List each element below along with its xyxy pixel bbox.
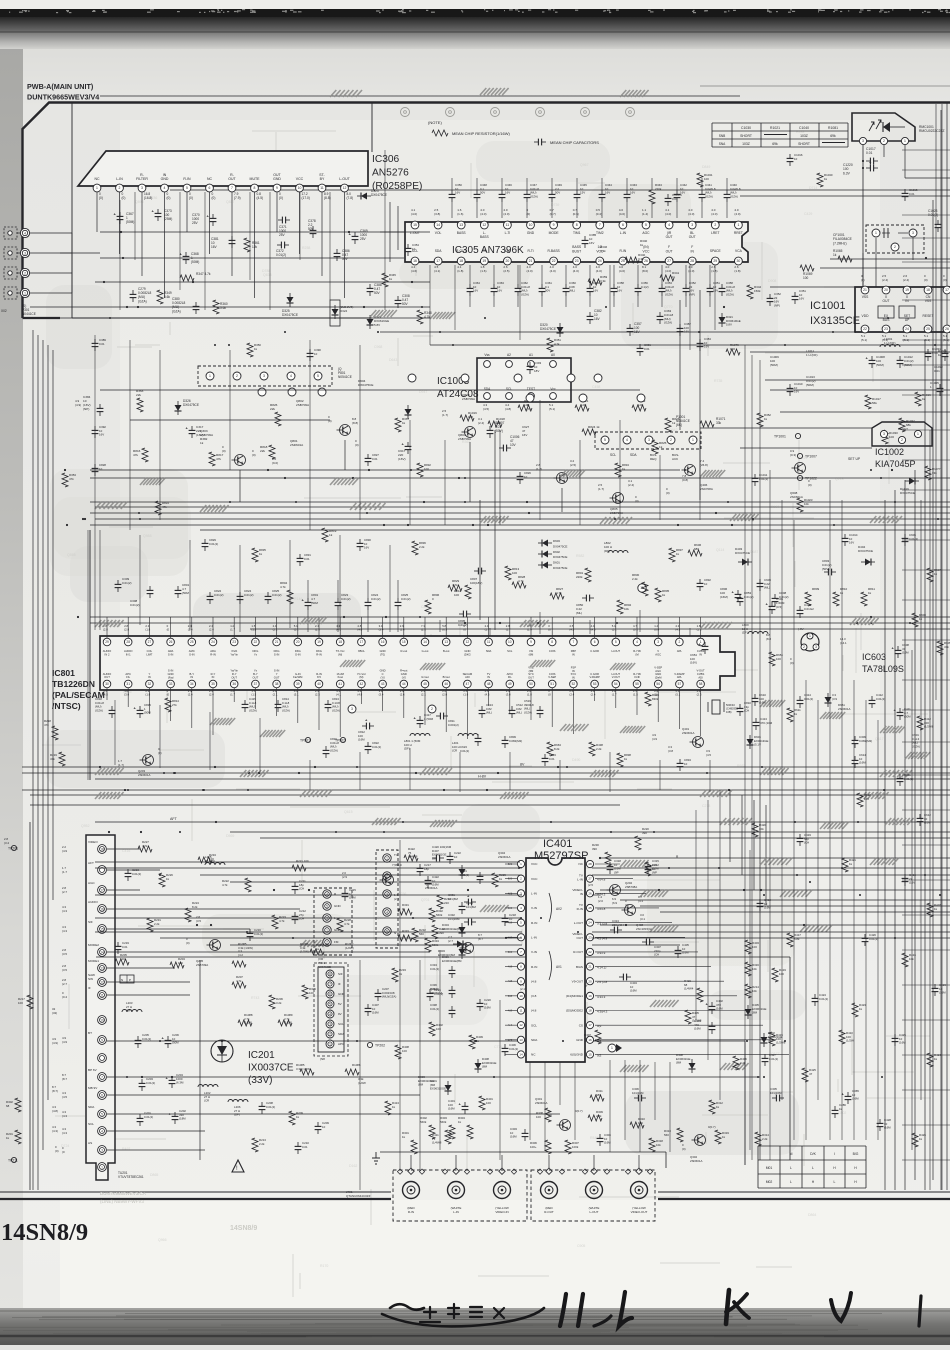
- IC801 bottom pin 46: [442, 680, 450, 688]
- svg-text:48: 48: [487, 682, 491, 686]
- svg-text:1: 1: [209, 374, 211, 378]
- TU201 pin 13 MODE1: [98, 964, 107, 973]
- svg-text:SIF: SIF: [88, 920, 93, 924]
- IC401 pin 19: [586, 992, 593, 999]
- IC801 bottom pin 53: [591, 680, 599, 688]
- svg-text:1: 1: [917, 432, 919, 436]
- resistor R820: [518, 405, 532, 411]
- inductor L401: [458, 734, 478, 737]
- svg-text:Vcc: Vcc: [550, 387, 556, 391]
- svg-text:16: 16: [588, 1038, 592, 1042]
- capacitor C355 C356 R342 cluster right: [721, 284, 723, 288]
- IC801 top pin 17: [358, 638, 366, 646]
- IC306 pin 2: [116, 184, 124, 192]
- svg-text:Vss: Vss: [484, 353, 490, 357]
- capacitor C828: [94, 464, 96, 468]
- capacitor C206: [167, 1036, 169, 1040]
- capacitor C350: [451, 190, 453, 194]
- svg-text:C968: C968: [374, 345, 382, 349]
- svg-text:L: L: [834, 1180, 836, 1184]
- capacitor C608: [897, 646, 899, 650]
- svg-text:R743: R743: [251, 996, 259, 1000]
- svg-text:46: 46: [444, 682, 448, 686]
- capacitor C813: [327, 700, 329, 704]
- capacitor C204: [171, 1076, 173, 1080]
- capacitor C318: [609, 862, 611, 866]
- svg-text:28: 28: [690, 259, 694, 263]
- svg-text:12: 12: [466, 640, 470, 644]
- svg-text:41: 41: [338, 682, 342, 686]
- IC1001 top pin 18: [924, 286, 932, 294]
- capacitor C831: [299, 554, 301, 558]
- svg-text:20: 20: [506, 259, 510, 263]
- capacitor C385: [584, 236, 586, 240]
- capacitor C815: [139, 706, 141, 710]
- svg-text:2: 2: [679, 640, 681, 644]
- capacitor C1008: [871, 356, 873, 360]
- capacitor C216: [249, 929, 251, 933]
- capacitor C1016: [789, 154, 791, 158]
- svg-text:57: 57: [678, 682, 682, 686]
- svg-text:NC: NC: [94, 177, 100, 181]
- svg-text:R-IN: R-IN: [620, 249, 627, 253]
- svg-text:24: 24: [211, 640, 215, 644]
- svg-text:11: 11: [519, 1009, 522, 1013]
- svg-text:SIF: SIF: [338, 972, 343, 976]
- svg-text:3: 3: [386, 892, 388, 896]
- IC401 pin 11: [517, 1007, 524, 1014]
- zener D651: [825, 697, 832, 703]
- capacitor C207: [377, 989, 379, 993]
- svg-text:23: 23: [884, 327, 888, 331]
- capacitor C347: [526, 190, 528, 194]
- capacitor C391: [639, 344, 641, 348]
- svg-text:27: 27: [588, 877, 592, 881]
- IC401 pin 21: [586, 963, 593, 970]
- svg-text:D687: D687: [750, 550, 758, 554]
- IC801 top pin 12: [464, 638, 472, 646]
- connector P203 (IF strip): [318, 967, 344, 1052]
- resistor R422: [404, 855, 418, 861]
- resistor R822: [632, 405, 646, 411]
- IC401 pin 7: [517, 948, 524, 955]
- svg-text:A2: A2: [507, 353, 511, 357]
- wire verticals right side: [769, 470, 771, 1160]
- IC1001 top pin 17: [943, 286, 950, 294]
- resistor R225: [310, 949, 324, 955]
- svg-text:6(S)GND: 6(S)GND: [570, 1053, 583, 1057]
- svg-text:9: 9: [276, 186, 278, 190]
- capacitor C201: [139, 1114, 141, 1118]
- capacitor C358: [613, 284, 615, 288]
- capacitor C513 C512 C519: [481, 706, 483, 710]
- connector pin below: [258, 388, 266, 396]
- IC1001 bottom pin 22: [861, 325, 869, 333]
- wire bus group: AFT lines y788-840: [22, 789, 950, 791]
- P401 pin 4: [323, 890, 331, 898]
- svg-text:(-9V: (-9V: [798, 627, 804, 631]
- resistor R829: [448, 585, 462, 591]
- svg-text:RRET: RRET: [734, 231, 743, 235]
- resistor R361: [244, 238, 250, 252]
- svg-text:3: 3: [815, 645, 817, 649]
- resistor R651: [769, 652, 775, 666]
- IC305 top pin 15: [411, 221, 419, 229]
- capacitor C303: [524, 1129, 526, 1133]
- IC801 top pin 13: [442, 638, 450, 646]
- diode D320: [557, 327, 564, 333]
- svg-text:1: 1: [386, 856, 388, 860]
- wires RMC1001: [862, 145, 864, 287]
- IF connector pin 4: [326, 1010, 334, 1018]
- resistor R801: [585, 568, 591, 582]
- resistor R405: [685, 1010, 691, 1024]
- resistor R314: [755, 1132, 761, 1146]
- IC305 top pin 1: [735, 221, 743, 229]
- resistor R663: [547, 742, 553, 756]
- capacitor C221: [429, 989, 431, 993]
- svg-text:2: 2: [431, 707, 433, 711]
- resistorv R607: [927, 568, 933, 582]
- resistor R1016: [915, 392, 921, 406]
- svg-text:6: 6: [209, 186, 211, 190]
- resistor R207: [232, 982, 246, 988]
- capacitor C212: [294, 912, 296, 916]
- svg-text:MODE2: MODE2: [88, 943, 99, 947]
- capacitor C422: [427, 876, 429, 880]
- svg-text:34: 34: [190, 682, 194, 686]
- svg-text:8: 8: [551, 640, 553, 644]
- resistor R310: [630, 1122, 644, 1128]
- resistor R340: [625, 257, 639, 263]
- svg-text:B/G: B/G: [853, 1152, 859, 1156]
- capacitor C427: [764, 1054, 766, 1058]
- capacitor C307: [642, 941, 646, 943]
- transistor Q408: [625, 905, 636, 916]
- tuning voltage varactor IC201: [211, 1040, 233, 1062]
- resistor R825: [652, 440, 658, 454]
- svg-text:VOL: VOL: [435, 231, 442, 235]
- RCA jack VIDEO-OUT: [631, 1182, 648, 1199]
- IC401 pin 10: [517, 992, 524, 999]
- resistor R824: [582, 429, 596, 435]
- resistor R331: [398, 909, 412, 915]
- svg-text:7: 7: [329, 982, 331, 986]
- diode D408: [689, 1063, 696, 1069]
- transistor Q406: [685, 465, 696, 476]
- capacitor C368: [185, 252, 187, 256]
- svg-text:2: 2: [236, 374, 238, 378]
- IC305 top pin 4: [665, 221, 673, 229]
- IC1003 top pin: [506, 361, 513, 368]
- svg-text:0(3: 0(3: [597, 1053, 602, 1057]
- RCA jack L-OUT: [586, 1182, 603, 1199]
- N|P switch box: [120, 975, 134, 983]
- capacitor C803: [824, 571, 828, 573]
- svg-text:23: 23: [588, 935, 592, 939]
- IF connector pin 1: [326, 1040, 334, 1048]
- inductor L802: [608, 551, 628, 554]
- capacitor C365: [847, 1092, 849, 1096]
- svg-text:4: 4: [329, 1012, 331, 1016]
- TU201 pin 11 IF: [98, 991, 107, 1000]
- P402 pin 4: [383, 908, 391, 916]
- resistorv R209: [289, 1111, 295, 1125]
- capacitor C222: [449, 852, 451, 856]
- svg-text:L: L: [812, 1166, 814, 1170]
- P402 pin 3: [383, 890, 391, 898]
- svg-text:R306100+: R306100+: [530, 1141, 537, 1149]
- resistorv R834: [615, 463, 621, 477]
- svg-text:3: 3: [883, 432, 885, 436]
- IC401 pin 14: [517, 1051, 524, 1058]
- svg-text:APC: APC: [338, 1042, 345, 1046]
- svg-text:TP801: TP801: [300, 739, 310, 743]
- svg-text:MODE: MODE: [549, 231, 560, 235]
- IC801 top pin 4: [633, 638, 641, 646]
- IC1001 top pin 20: [882, 286, 890, 294]
- capacitor C426: [864, 934, 866, 938]
- svg-text:SDA: SDA: [88, 1105, 95, 1109]
- IC401 pin 15: [586, 1051, 593, 1058]
- RMC1001 pin 2: [880, 137, 887, 144]
- TU201 pin 14 MODE2: [98, 948, 107, 957]
- circled 11 node: [638, 584, 646, 592]
- capacitor C348: [476, 190, 478, 194]
- IC801 bottom pin 52: [570, 680, 578, 688]
- svg-text:11: 11: [487, 640, 491, 644]
- IF connector pin 6: [326, 990, 334, 998]
- svg-text:D162: D162: [349, 1164, 357, 1168]
- IC401 pin 24: [586, 919, 593, 926]
- resistor R367: [395, 418, 401, 432]
- diode D30x: [457, 941, 463, 948]
- svg-text:NC: NC: [207, 177, 213, 181]
- P402 pin 1: [383, 854, 391, 862]
- svg-text:2: 2: [119, 186, 121, 190]
- IC1001 top pin 21: [861, 286, 869, 294]
- svg-text:L-IN: L-IN: [531, 892, 537, 896]
- svg-text:1: 1: [24, 291, 26, 295]
- svg-text:10: 10: [508, 640, 512, 644]
- P1001 pin: [689, 436, 697, 444]
- IC401 pin 8: [517, 963, 524, 970]
- resistor R210: [437, 895, 443, 909]
- resistor R308: [545, 1108, 551, 1122]
- zener D601b: [747, 739, 754, 745]
- capacitor C373: [157, 209, 159, 213]
- svg-text:4: 4: [636, 640, 638, 644]
- resistorv R425: [802, 1068, 808, 1082]
- connector P402 (TV): [376, 850, 398, 948]
- svg-text:42: 42: [360, 682, 364, 686]
- connector pin: [206, 372, 214, 380]
- capacitor C825: [397, 598, 399, 602]
- IC801 top pin 1: [697, 638, 705, 646]
- svg-text:21: 21: [529, 259, 533, 263]
- diode D406: [475, 1063, 482, 1069]
- svg-text:45: 45: [423, 682, 427, 686]
- capacitor C623: [477, 734, 479, 738]
- svg-text:20: 20: [296, 640, 300, 644]
- svg-text:COISV-SEP: COISV-SEP: [548, 672, 556, 679]
- svg-text:NC: NC: [531, 1053, 536, 1057]
- resistor R802: [617, 600, 623, 614]
- svg-text:4.14.1): 4.14.1): [597, 966, 606, 970]
- svg-text:SDA: SDA: [435, 249, 443, 253]
- resistor R804: [287, 590, 293, 604]
- connector P301: [4, 227, 17, 239]
- diode D322: [367, 319, 374, 325]
- IC306 pin 5: [183, 184, 191, 192]
- svg-text:5: 5: [186, 186, 188, 190]
- TU201 pin 15 SIF: [98, 925, 107, 934]
- capacitor C829: [204, 539, 206, 543]
- resistor R819: [322, 528, 328, 542]
- IC801 bottom pin 38: [273, 680, 281, 688]
- IC1003 top pin: [528, 361, 535, 368]
- resistor R1088: [238, 1020, 252, 1026]
- P401 pin 2: [323, 938, 331, 946]
- capacitor C306: [634, 1097, 638, 1099]
- IC801 top pin 15: [400, 638, 408, 646]
- resistor R230: [605, 852, 611, 866]
- IC801 TB1226DN jungle IC block: [100, 636, 735, 690]
- IC801 bottom pin 42: [358, 680, 366, 688]
- IC305 bottom pin 25: [619, 257, 627, 265]
- svg-text:ARAS-IN: ARAS-IN: [168, 649, 174, 656]
- svg-text:(3.8: (3.8: [531, 994, 537, 998]
- svg-text:8: 8: [254, 186, 256, 190]
- capacitor C304b: [599, 1134, 601, 1138]
- dashed connector P1001 (bus): [595, 432, 701, 449]
- svg-text:9: 9: [101, 1038, 103, 1042]
- wire bus group: 8V / H-8V below IC801: [22, 766, 950, 768]
- connector pin below: [318, 388, 326, 396]
- remote receiver RMC1001: [852, 113, 915, 141]
- svg-text:VXE(6MSYCOUT: VXE(6MSYCOUT: [528, 665, 534, 679]
- capacitor C609: [759, 579, 761, 583]
- svg-text:3: 3: [912, 231, 914, 235]
- svg-text:AMCG-IN: AMCG-IN: [189, 649, 195, 656]
- svg-text:4: 4: [164, 186, 166, 190]
- capacitor C369: [354, 232, 356, 236]
- handwritten service stamp: [382, 1290, 921, 1326]
- IC305 top pin 8: [573, 221, 581, 229]
- resistor R333: [398, 935, 412, 941]
- resistor R206: [269, 995, 275, 1009]
- svg-text:4: 4: [386, 910, 388, 914]
- capacitor C617: [407, 442, 409, 446]
- svg-text:0(0.7): 0(0.7): [575, 1109, 583, 1113]
- svg-text:MUTE: MUTE: [250, 177, 261, 181]
- svg-text:7: 7: [573, 640, 575, 644]
- svg-text:24: 24: [905, 327, 909, 331]
- svg-text:Q615: Q615: [344, 810, 353, 814]
- wires P301 to IC306: [71, 233, 73, 293]
- svg-text:AGC: AGC: [88, 881, 95, 885]
- svg-text:3.93.9: 3.93.9: [597, 951, 606, 955]
- capacitor C606: [904, 534, 906, 538]
- svg-text:1: 1: [737, 223, 739, 227]
- capacitor C359: [589, 284, 591, 288]
- svg-text:TP201: TP201: [8, 847, 18, 851]
- svg-text:21: 21: [275, 640, 279, 644]
- svg-text:R343220k: R343220k: [655, 183, 662, 191]
- IC306 pin 10: [296, 184, 304, 192]
- svg-text:SET UP: SET UP: [848, 457, 861, 461]
- IC305 bottom pin 16: [411, 257, 419, 265]
- svg-text:10: 10: [519, 994, 523, 998]
- IC801 top pin 28: [124, 638, 132, 646]
- capacitor C425: [894, 1034, 896, 1038]
- resistorv R426: [912, 1133, 918, 1147]
- resistorv R229: [492, 873, 498, 887]
- svg-text:(NOTE): (NOTE): [428, 120, 442, 125]
- deflection pin: [594, 374, 602, 382]
- svg-text:40: 40: [317, 682, 321, 686]
- IC801 bottom pin 32: [146, 680, 154, 688]
- inductor L602: [748, 632, 768, 635]
- svg-text:H-OUT: H-OUT: [612, 649, 621, 653]
- capacitor C357: [629, 324, 631, 328]
- svg-text:15: 15: [588, 1053, 592, 1057]
- svg-text:OUTGND: OUTGND: [273, 173, 281, 181]
- capacitor C378: [312, 226, 314, 230]
- resistor R319: [715, 1130, 721, 1144]
- svg-text:Q967: Q967: [580, 163, 589, 167]
- svg-text:R497: R497: [122, 1147, 130, 1151]
- svg-text:6: 6: [622, 223, 624, 227]
- IC305 bottom pin 27: [665, 257, 673, 265]
- capacitor C342: [676, 190, 678, 194]
- svg-text:11: 11: [506, 223, 510, 227]
- IC1003 top pin: [484, 361, 491, 368]
- svg-text:15: 15: [100, 927, 104, 931]
- capacitor C209: [317, 1122, 319, 1126]
- IC201 section border: [96, 956, 790, 958]
- svg-text:R-OUT: R-OUT: [573, 950, 583, 954]
- diode D321: [719, 317, 726, 323]
- svg-text:3: 3: [648, 438, 650, 442]
- capacitor C390: [309, 349, 311, 353]
- svg-text:N: N: [394, 931, 396, 935]
- svg-text:DKGS-IN: DKGS-IN: [274, 649, 280, 656]
- svg-text:SCL: SCL: [610, 453, 616, 457]
- IC306 pin 7: [228, 184, 236, 192]
- svg-text:10: 10: [298, 186, 302, 190]
- svg-text:D864: D864: [808, 1213, 816, 1217]
- svg-text:GND: GND: [334, 904, 342, 908]
- capacitor C334: [451, 966, 453, 970]
- IC801 top pin 27: [146, 638, 154, 646]
- svg-text:16: 16: [100, 907, 104, 911]
- IC801 bottom pin 45: [421, 680, 429, 688]
- wire verticals upper mid: [119, 200, 121, 310]
- IC305 bottom pin 18: [457, 257, 465, 265]
- svg-text:TVL-IN: TVL-IN: [577, 873, 584, 881]
- svg-text:R1021: R1021: [770, 126, 780, 130]
- svg-text:VCC: VCC: [531, 862, 538, 866]
- capacitor C614: [854, 756, 856, 760]
- resistorv R1040: [817, 173, 823, 187]
- capacitor C215: [344, 889, 346, 893]
- test point TP1007: [797, 453, 802, 458]
- IF connector pin 5: [326, 1000, 334, 1008]
- resistor R201: [15, 1130, 21, 1144]
- capacitor C367: [119, 212, 121, 216]
- svg-text:TEST: TEST: [527, 387, 535, 391]
